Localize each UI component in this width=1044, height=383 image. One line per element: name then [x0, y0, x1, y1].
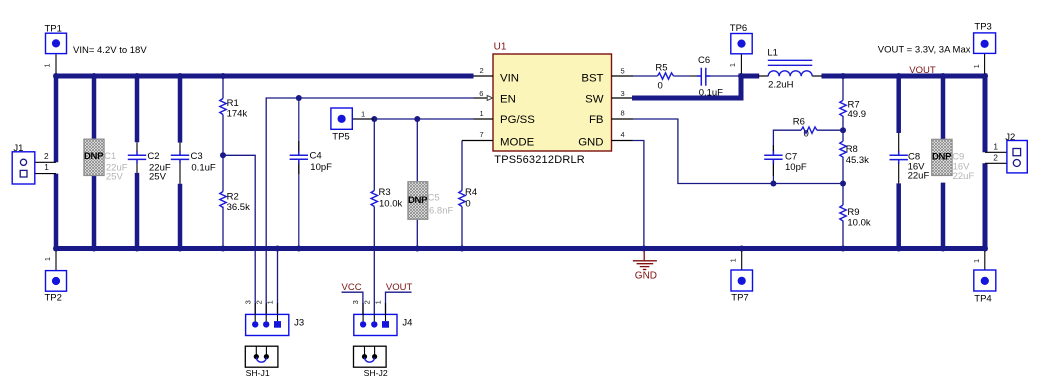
- wire VIN top bus: [54, 74, 474, 79]
- svg-text:0.1uF: 0.1uF: [699, 87, 723, 98]
- wire C8 drop upper: [896, 76, 901, 133]
- node GND bus / C2: [134, 246, 140, 252]
- node R7/R8/R6 junction: [840, 127, 846, 133]
- svg-text:DNP: DNP: [932, 151, 952, 162]
- node VIN bus / TP1-J1: [53, 73, 59, 79]
- svg-text:1: 1: [993, 141, 998, 151]
- capacitor C6 0.1uF (vertical plates): [697, 68, 710, 86]
- svg-text:2: 2: [480, 66, 484, 75]
- svg-text:2: 2: [362, 300, 371, 304]
- capacitor C7 10pF: [764, 151, 782, 164]
- svg-text:25V: 25V: [149, 172, 167, 183]
- node VOUT bus / C9: [940, 73, 946, 79]
- wire C5 top lead from PG/SS net: [416, 119, 418, 182]
- svg-text:49.9: 49.9: [848, 109, 867, 120]
- svg-text:VOUT: VOUT: [386, 282, 413, 293]
- U1 pin SW (3) stub: [612, 97, 633, 99]
- svg-text:22uF: 22uF: [908, 171, 930, 182]
- svg-text:TP2: TP2: [45, 293, 62, 304]
- wire C9 drop lower: [941, 183, 946, 249]
- svg-text:MODE: MODE: [500, 136, 535, 148]
- connector J2: [985, 132, 1027, 173]
- U1 pin VIN (2) stub: [474, 75, 494, 77]
- wire C3 drop lower: [178, 184, 183, 249]
- svg-text:0: 0: [465, 199, 470, 210]
- svg-text:VCC: VCC: [342, 282, 362, 293]
- svg-text:1: 1: [729, 258, 738, 262]
- wire J1 pin1 drop to GND bus: [54, 174, 59, 249]
- svg-text:R9: R9: [847, 207, 859, 218]
- node EN net / C4: [296, 95, 302, 101]
- wire SW bus U1 to L1: [632, 76, 759, 98]
- wire C8 drop lower: [896, 183, 901, 248]
- resistor R4 0: [459, 191, 465, 207]
- svg-text:3: 3: [621, 89, 625, 98]
- capacitor C1 22uF 25V (DNP): [84, 139, 128, 183]
- shunt jumper SH-J2: [354, 346, 388, 378]
- svg-text:4: 4: [621, 130, 625, 139]
- wire C6 to SW node: [707, 75, 741, 77]
- svg-text:TP5: TP5: [332, 132, 349, 143]
- node GND bus / C8: [896, 246, 902, 252]
- wire FB net U1 pin8 to R8/R9 junction: [633, 119, 843, 184]
- test point TP2: [43, 251, 66, 304]
- node VOUT bus / R7: [840, 73, 846, 79]
- svg-text:10.0k: 10.0k: [379, 198, 402, 209]
- svg-text:2: 2: [993, 153, 998, 163]
- svg-text:R8: R8: [846, 144, 858, 155]
- wire VIN bus drop to J1 pin2: [54, 76, 59, 162]
- node GND bus / C9: [940, 246, 946, 252]
- wire R3 bottom to J4 pin2: [373, 207, 375, 315]
- node PG/SS / C5: [414, 116, 420, 122]
- svg-text:GND: GND: [578, 136, 603, 148]
- capacitor C3 0.1uF: [171, 151, 189, 164]
- wire C1 drop upper: [92, 76, 97, 140]
- svg-text:TP7: TP7: [731, 293, 748, 304]
- svg-text:SW: SW: [585, 93, 604, 105]
- svg-text:1: 1: [361, 109, 365, 118]
- wire R6 node C7 top to R7/R8 junction: [773, 130, 843, 154]
- svg-text:R5: R5: [655, 63, 667, 74]
- node PG/SS / R3: [371, 116, 377, 122]
- wire R3 top lead from PG/SS net: [373, 119, 375, 191]
- svg-text:2.2uH: 2.2uH: [768, 80, 793, 91]
- capacitor C2 22uF 25V: [128, 151, 146, 164]
- wire MODE net down through R4 to GND bus: [461, 141, 463, 249]
- resistor R9 10.0k: [840, 205, 846, 221]
- svg-text:L1: L1: [767, 48, 778, 59]
- test point TP5: [331, 108, 374, 143]
- wire C9 drop upper: [941, 76, 946, 139]
- svg-text:C5: C5: [428, 192, 440, 203]
- capacitor C8 16V 22uF: [890, 151, 908, 164]
- resistor R3 10.0k: [371, 191, 377, 207]
- node FB / C7: [770, 181, 776, 187]
- svg-text:VOUT = 3.3V, 3A Max: VOUT = 3.3V, 3A Max: [878, 45, 971, 56]
- svg-text:C6: C6: [698, 55, 710, 66]
- svg-text:1: 1: [43, 257, 52, 261]
- node GND bus / U1 GND: [641, 246, 647, 252]
- svg-text:5: 5: [621, 67, 625, 76]
- svg-text:R4: R4: [465, 187, 477, 198]
- node GND bus / C3: [177, 246, 183, 252]
- svg-text:TP3: TP3: [974, 22, 991, 33]
- wire L1 right lead: [812, 75, 822, 77]
- svg-text:VOUT: VOUT: [909, 65, 936, 76]
- svg-text:C3: C3: [191, 151, 203, 162]
- wire R1 to R2 segment (EN divider node): [222, 115, 224, 192]
- svg-text:SH-J2: SH-J2: [364, 368, 388, 378]
- wire R7 chain column: [842, 76, 844, 249]
- node VIN bus / R1: [220, 73, 226, 79]
- svg-text:J4: J4: [402, 317, 412, 328]
- svg-text:1: 1: [374, 300, 383, 304]
- node VIN bus / C2: [134, 73, 140, 79]
- wire C3 drop upper: [178, 76, 183, 143]
- wire C4 bottom lead to GND bus: [298, 160, 300, 249]
- wire R1 top lead from VIN bus: [222, 76, 224, 99]
- svg-text:6.8nF: 6.8nF: [429, 205, 453, 216]
- U1 pin MODE (7) stub: [462, 140, 493, 142]
- wire R2 bottom to GND bus: [222, 207, 224, 249]
- connector J4: [351, 300, 412, 335]
- node GND bus / C5: [414, 246, 420, 252]
- svg-text:U1: U1: [494, 41, 507, 52]
- test point TP6: [728, 23, 752, 73]
- node GND bus / R2: [220, 246, 226, 252]
- node GND bus / J3 pin1: [275, 246, 281, 252]
- wire VOUT bus L1 to J2: [822, 76, 986, 152]
- svg-text:0: 0: [658, 80, 663, 91]
- svg-text:SH-J1: SH-J1: [246, 368, 270, 378]
- svg-text:GND: GND: [635, 271, 657, 282]
- svg-text:TPS563212DRLR: TPS563212DRLR: [494, 154, 585, 166]
- node GND bus / R4: [459, 246, 465, 252]
- svg-text:VIN: VIN: [500, 72, 519, 84]
- svg-text:TP6: TP6: [730, 23, 747, 34]
- resistor R6 0: [801, 127, 817, 133]
- wire J3 pin1 to GND bus: [277, 249, 279, 315]
- capacitor C9 16V 22uF (DNP): [932, 139, 975, 182]
- node GND bus corner / TP4: [982, 246, 988, 252]
- node VIN bus / C1: [91, 73, 97, 79]
- test point TP1: [42, 23, 66, 73]
- node GND bus / TP7: [739, 246, 745, 252]
- svg-text:3: 3: [243, 300, 252, 304]
- svg-text:1: 1: [972, 259, 981, 263]
- wire PG/SS net TP5 to U1 pin1: [352, 118, 473, 120]
- svg-text:3: 3: [351, 300, 360, 304]
- svg-text:R3: R3: [379, 187, 391, 198]
- svg-text:1: 1: [728, 63, 737, 67]
- connector J1: [12, 143, 56, 184]
- svg-text:VIN= 4.2V to 18V: VIN= 4.2V to 18V: [73, 45, 147, 56]
- wire GND bottom bus: [54, 246, 987, 251]
- svg-text:45.3k: 45.3k: [846, 155, 869, 166]
- wire BST net U1 pin5 to R5: [633, 75, 658, 77]
- node GND bus / R9: [840, 246, 846, 252]
- svg-text:22uF: 22uF: [953, 171, 975, 182]
- svg-text:36.5k: 36.5k: [227, 202, 250, 213]
- node GND bus / TP2-J1: [53, 246, 59, 252]
- node GND bus / C1: [91, 246, 97, 252]
- svg-text:TP4: TP4: [974, 293, 991, 304]
- wire L1 left lead: [758, 75, 768, 77]
- node VOUT bus / C8: [896, 73, 902, 79]
- svg-text:2: 2: [44, 151, 49, 161]
- wire C2 drop lower: [135, 173, 140, 249]
- svg-text:6: 6: [479, 89, 483, 98]
- svg-text:1: 1: [266, 300, 275, 304]
- U1 pin GND (4) stub: [612, 140, 633, 142]
- resistor R8 45.3k: [840, 141, 846, 157]
- shunt jumper SH-J1: [245, 346, 278, 378]
- svg-text:R2: R2: [227, 191, 239, 202]
- wire EN divider node to J3 pin3: [223, 155, 255, 314]
- svg-text:1: 1: [480, 109, 484, 118]
- test point TP4: [972, 251, 996, 304]
- node VIN bus / C3: [177, 73, 183, 79]
- wire C7 bottom lead to FB net: [772, 160, 774, 184]
- capacitor C5 6.8nF (DNP): [408, 182, 454, 220]
- U1 pin PG/SS (1) stub: [474, 118, 494, 120]
- svg-text:BST: BST: [581, 72, 603, 84]
- resistor R2 36.5k: [220, 192, 226, 208]
- svg-text:1: 1: [42, 63, 51, 67]
- U1 pin BST (5) stub: [612, 75, 634, 77]
- wire C4 top lead from EN net: [298, 98, 300, 155]
- wire C5 bottom lead to GND bus: [416, 219, 418, 248]
- svg-text:10pF: 10pF: [310, 162, 332, 173]
- svg-text:8: 8: [621, 109, 625, 118]
- svg-text:C7: C7: [785, 151, 797, 162]
- node EN divider junction: [220, 152, 226, 158]
- resistor R5 0: [658, 73, 674, 79]
- wire EN net U1 pin6 to J3 pin2: [266, 98, 473, 314]
- svg-text:DNP: DNP: [84, 151, 104, 162]
- svg-text:25V: 25V: [106, 172, 124, 183]
- node GND bus / C4: [296, 246, 302, 252]
- ground symbol GND: [633, 251, 657, 270]
- op-amp U1 TPS563212DRLR body: [493, 54, 612, 151]
- svg-text:0: 0: [804, 129, 809, 140]
- inductor L1 2.2uH: [768, 60, 813, 76]
- svg-text:DNP: DNP: [408, 195, 428, 206]
- svg-text:EN: EN: [500, 93, 516, 105]
- wire C2 drop upper: [135, 76, 140, 142]
- connector J3: [243, 300, 304, 335]
- svg-text:J3: J3: [294, 317, 304, 328]
- U1 pin EN (6) stub and arrow: [474, 97, 488, 99]
- capacitor C4 10pF: [290, 151, 308, 164]
- svg-text:R6: R6: [793, 117, 805, 128]
- node VOUT bus corner / TP3: [982, 73, 988, 79]
- svg-text:TP1: TP1: [45, 23, 62, 34]
- wire R5 to C6: [674, 75, 691, 77]
- wire VCC net label stub to J4 pin3: [342, 292, 363, 314]
- svg-text:C1: C1: [104, 151, 116, 162]
- wire C1 drop lower: [92, 175, 97, 248]
- svg-text:1: 1: [44, 162, 49, 172]
- svg-text:7: 7: [480, 130, 484, 139]
- svg-text:1: 1: [972, 64, 981, 68]
- svg-text:J1: J1: [13, 143, 23, 154]
- resistor R7 49.9: [840, 100, 846, 116]
- wire J2 pin2 to GND bus: [983, 163, 988, 248]
- svg-text:0.1uF: 0.1uF: [191, 162, 215, 173]
- svg-text:10.0k: 10.0k: [847, 218, 870, 229]
- node BST-SW / TP6: [738, 73, 744, 79]
- svg-text:2: 2: [254, 300, 263, 304]
- node FB / R8/R9 junction: [840, 181, 846, 187]
- svg-text:10pF: 10pF: [785, 162, 807, 173]
- svg-text:J2: J2: [1005, 132, 1015, 143]
- wire U1 GND pin to bottom bus: [633, 141, 644, 249]
- wire VOUT net label stub to J4 pin1: [386, 292, 412, 314]
- resistor R1 174k: [220, 99, 226, 115]
- U1 pin FB (8) stub: [612, 118, 634, 120]
- svg-text:PG/SS: PG/SS: [500, 114, 535, 126]
- svg-text:FB: FB: [589, 114, 604, 126]
- svg-text:C4: C4: [310, 151, 322, 162]
- test point TP7: [729, 251, 753, 304]
- svg-text:C2: C2: [147, 151, 159, 162]
- svg-text:174k: 174k: [227, 109, 248, 120]
- test point TP3: [972, 22, 996, 74]
- svg-text:R1: R1: [227, 98, 239, 109]
